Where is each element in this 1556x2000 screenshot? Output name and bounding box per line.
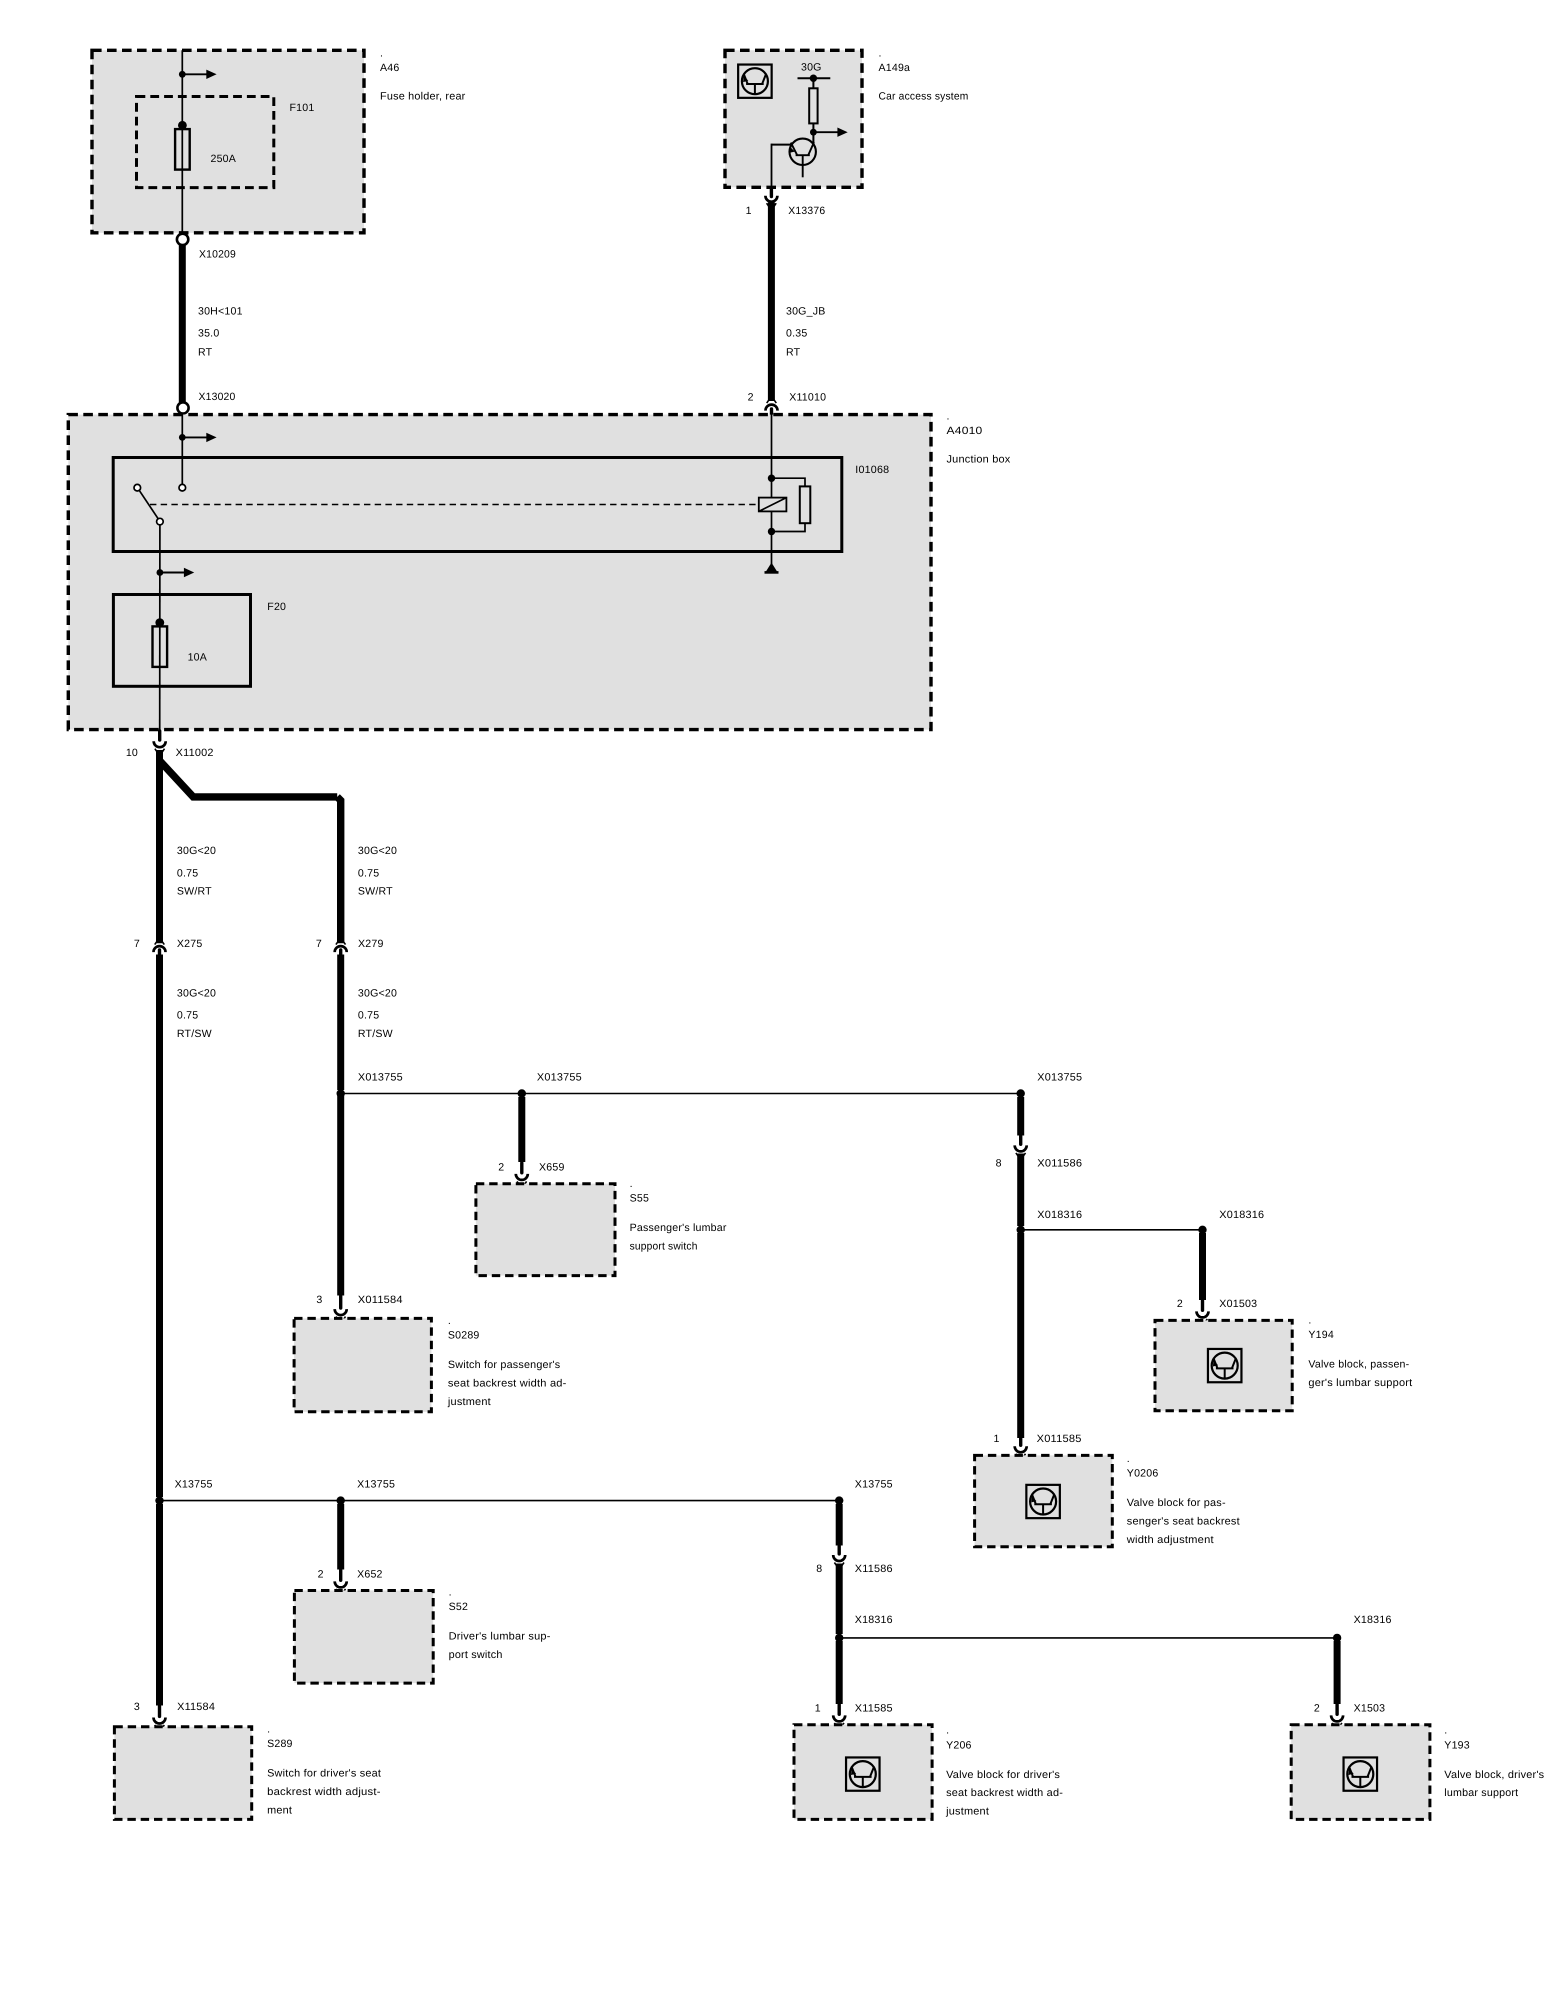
svg-text:2: 2 bbox=[498, 1162, 504, 1174]
transistor Q1 in A149a bbox=[790, 139, 816, 178]
wire 30G_JB 0.35 RT — A149a to junction box bbox=[768, 203, 775, 402]
node X13755 right bbox=[835, 1496, 843, 1504]
wire X11010 to relay bbox=[771, 415, 773, 534]
svg-text:.: . bbox=[630, 1178, 633, 1190]
svg-text:1: 1 bbox=[815, 1703, 821, 1715]
wire 30G<20 RT/SW left, X275 to X13755 bbox=[156, 955, 163, 1498]
wire F20 to X11002 bbox=[159, 626, 161, 729]
svg-text:X13755: X13755 bbox=[855, 1479, 893, 1491]
svg-text:X11586: X11586 bbox=[855, 1563, 893, 1575]
svg-text:F20: F20 bbox=[267, 601, 286, 613]
svg-text:X18316: X18316 bbox=[1354, 1614, 1392, 1626]
wire — battery feed inside A46 bbox=[181, 50, 183, 123]
svg-text:X13020: X13020 bbox=[199, 391, 236, 403]
svg-text:.: . bbox=[946, 1725, 949, 1737]
svg-text:ment: ment bbox=[267, 1804, 292, 1816]
svg-text:Y194: Y194 bbox=[1308, 1329, 1334, 1341]
switch S289 for driver's seat backrest width adjustment — dashed box bbox=[114, 1727, 251, 1820]
connector X279 pin 7 bbox=[335, 946, 347, 952]
wire X018316 to X01503 bbox=[1199, 1233, 1206, 1300]
node X13755 left bbox=[155, 1496, 163, 1504]
svg-text:X013755: X013755 bbox=[537, 1071, 582, 1083]
svg-text:3: 3 bbox=[316, 1294, 322, 1306]
switch S0289 for passenger's seat backrest width adjustment — dashed box bbox=[294, 1318, 431, 1411]
svg-text:0.35: 0.35 bbox=[786, 328, 807, 340]
relay contact blade bbox=[139, 490, 158, 519]
svg-text:X13376: X13376 bbox=[788, 205, 825, 217]
svg-text:Switch for driver's seat: Switch for driver's seat bbox=[267, 1768, 381, 1780]
junction box A4010 — dashed enclosure bbox=[68, 415, 931, 730]
svg-text:Junction box: Junction box bbox=[947, 454, 1012, 466]
connector X11586 pin 8 bbox=[838, 1546, 841, 1554]
svg-text:seat backrest width ad-: seat backrest width ad- bbox=[946, 1787, 1063, 1799]
svg-text:30G<20: 30G<20 bbox=[177, 988, 216, 1000]
fuse F101 element 250A bbox=[178, 121, 187, 130]
connector X11584 pin 3 bbox=[158, 1706, 161, 1716]
svg-text:X279: X279 bbox=[358, 938, 384, 950]
svg-text:ger's lumbar support: ger's lumbar support bbox=[1308, 1377, 1412, 1389]
wire X13755 to S52 bbox=[337, 1504, 344, 1570]
svg-text:8: 8 bbox=[996, 1158, 1002, 1170]
svg-text:X10209: X10209 bbox=[199, 248, 236, 260]
relay contact terminal (NC) bbox=[134, 484, 141, 491]
relay contact terminal (input) bbox=[179, 484, 186, 491]
svg-text:8: 8 bbox=[816, 1563, 822, 1575]
wire through F101 to X10209 bbox=[181, 129, 183, 233]
net X18316 horizontal link bbox=[839, 1637, 1337, 1639]
wire transistor base bbox=[772, 144, 792, 146]
svg-text:Y193: Y193 bbox=[1444, 1739, 1470, 1751]
svg-text:Passenger's lumbar: Passenger's lumbar bbox=[630, 1222, 727, 1234]
svg-text:I01068: I01068 bbox=[855, 464, 889, 476]
svg-text:Valve block, driver's: Valve block, driver's bbox=[1444, 1769, 1544, 1781]
connector X659 pin 2 bbox=[520, 1163, 523, 1173]
valve block Y193, driver's lumbar support — dashed box bbox=[1291, 1725, 1430, 1820]
connector X11010 pin 2 bbox=[766, 405, 778, 411]
svg-text:A4010: A4010 bbox=[947, 425, 983, 437]
feed continuation arrow in A46 bbox=[179, 71, 186, 78]
svg-text:30H<101: 30H<101 bbox=[198, 306, 243, 318]
svg-text:Y0206: Y0206 bbox=[1127, 1467, 1159, 1479]
wire X18316 right down to X1503 bbox=[1334, 1641, 1341, 1704]
wire 30G<20 RT/SW right, X279 to X013755 bbox=[337, 955, 344, 1091]
valve block Y194, passenger's lumbar support — dashed box bbox=[1155, 1320, 1292, 1410]
svg-text:2: 2 bbox=[318, 1569, 324, 1581]
valve block Y0206 for passenger's seat backrest width adjustment — dashed box bbox=[975, 1455, 1113, 1546]
svg-text:35.0: 35.0 bbox=[198, 328, 219, 340]
svg-text:.: . bbox=[380, 48, 383, 60]
net X018316 horizontal link bbox=[1021, 1229, 1203, 1231]
resistor in A149a bbox=[809, 88, 817, 123]
svg-text:Fuse holder, rear: Fuse holder, rear bbox=[380, 90, 466, 102]
wire 30G to resistor bbox=[812, 78, 814, 88]
svg-text:S55: S55 bbox=[630, 1193, 649, 1205]
wire X013755 to S55 bbox=[518, 1097, 525, 1162]
wire X013755 right down to X011586 bbox=[1017, 1097, 1024, 1136]
svg-text:10A: 10A bbox=[188, 651, 208, 663]
svg-text:S0289: S0289 bbox=[448, 1330, 480, 1342]
connector X13376 pin 1 bbox=[770, 189, 773, 197]
svg-text:seat backrest width ad-: seat backrest width ad- bbox=[448, 1378, 567, 1390]
connector X11585 pin 1 bbox=[838, 1705, 841, 1715]
svg-text:2: 2 bbox=[748, 392, 754, 404]
fuse F20 element 10A bbox=[155, 618, 164, 627]
wire X13755 left down to X11584 bbox=[156, 1504, 163, 1706]
svg-text:1: 1 bbox=[746, 205, 752, 217]
svg-text:S52: S52 bbox=[449, 1601, 468, 1613]
svg-text:X659: X659 bbox=[539, 1162, 565, 1174]
svg-text:senger's seat backrest: senger's seat backrest bbox=[1127, 1515, 1240, 1527]
node X13755 middle bbox=[337, 1496, 345, 1504]
svg-text:A149a: A149a bbox=[879, 62, 911, 74]
svg-text:backrest width adjust-: backrest width adjust- bbox=[267, 1786, 381, 1798]
svg-text:X18316: X18316 bbox=[855, 1614, 893, 1626]
wire X018316 down to X011585 bbox=[1017, 1233, 1024, 1438]
svg-text:X011584: X011584 bbox=[358, 1294, 403, 1306]
svg-text:1: 1 bbox=[994, 1433, 1000, 1445]
svg-text:X11584: X11584 bbox=[177, 1701, 215, 1713]
svg-text:S289: S289 bbox=[267, 1738, 293, 1750]
svg-text:.: . bbox=[947, 411, 950, 423]
wire X18316 down to X11585 bbox=[836, 1641, 843, 1704]
svg-text:7: 7 bbox=[316, 938, 322, 950]
svg-text:2: 2 bbox=[1177, 1298, 1183, 1310]
svg-text:X1503: X1503 bbox=[1354, 1703, 1386, 1715]
ground symbol in junction box bbox=[766, 563, 778, 572]
wire branch to second backbone bbox=[160, 761, 338, 797]
svg-text:F101: F101 bbox=[290, 102, 315, 114]
connector X13020 bbox=[177, 402, 188, 413]
svg-text:.: . bbox=[1127, 1453, 1130, 1465]
wire relay output down to fuse F20 bbox=[159, 525, 161, 625]
connector X011584 pin 3 bbox=[339, 1296, 342, 1308]
svg-text:SW/RT: SW/RT bbox=[177, 886, 212, 898]
svg-text:X018316: X018316 bbox=[1037, 1209, 1082, 1221]
svg-text:X01503: X01503 bbox=[1219, 1298, 1257, 1310]
wire base lead down to X13376 bbox=[771, 144, 773, 188]
valve block icon Y0206 bbox=[1026, 1485, 1060, 1518]
svg-text:RT: RT bbox=[198, 347, 213, 359]
wire X11586 to X18316 bbox=[836, 1564, 843, 1635]
svg-text:.: . bbox=[267, 1723, 270, 1735]
node X18316 right bbox=[1333, 1634, 1341, 1642]
svg-text:Valve block for pas-: Valve block for pas- bbox=[1127, 1497, 1226, 1509]
svg-text:X011586: X011586 bbox=[1037, 1158, 1082, 1170]
svg-text:width adjustment: width adjustment bbox=[1126, 1534, 1214, 1546]
passenger's lumbar support switch S55 — dashed box bbox=[476, 1184, 615, 1276]
wire X13020 into junction box bbox=[181, 414, 183, 485]
svg-text:X652: X652 bbox=[357, 1569, 383, 1581]
fuse F20 box bbox=[113, 595, 250, 687]
node 30G bus stub bbox=[798, 77, 831, 79]
svg-text:X018316: X018316 bbox=[1219, 1209, 1264, 1221]
wire 30G<20 left backbone (SW/RT) bbox=[156, 750, 163, 943]
control unit icon in A149a bbox=[738, 65, 772, 98]
node X018316 right bbox=[1198, 1226, 1206, 1234]
connector X011585 pin 1 bbox=[1019, 1439, 1022, 1446]
wire X011586 to X018316 bbox=[1017, 1154, 1024, 1227]
svg-text:Y206: Y206 bbox=[946, 1739, 972, 1751]
svg-text:port switch: port switch bbox=[449, 1649, 503, 1661]
svg-text:X013755: X013755 bbox=[358, 1071, 403, 1083]
fuse holder A46, rear — dashed enclosure bbox=[92, 50, 364, 233]
valve block icon Y194 bbox=[1208, 1349, 1242, 1382]
node — relay coil bottom junction bbox=[768, 528, 775, 535]
node X18316 left bbox=[835, 1634, 843, 1642]
feed continuation arrow in A4010 bbox=[179, 434, 186, 441]
feed continuation arrow above F20 bbox=[157, 569, 164, 576]
wire coil to ground bbox=[771, 533, 773, 564]
relay contact output terminal bbox=[157, 518, 164, 525]
svg-text:0.75: 0.75 bbox=[358, 868, 379, 880]
node X013755 left bbox=[337, 1089, 345, 1097]
svg-text:250A: 250A bbox=[211, 153, 237, 165]
electronics module I01068 box bbox=[113, 458, 842, 552]
svg-text:.: . bbox=[448, 1315, 451, 1327]
relay coil K1 bbox=[759, 498, 787, 512]
connector X10209 bbox=[177, 234, 188, 245]
node — relay coil top junction bbox=[768, 475, 775, 482]
svg-text:30G_JB: 30G_JB bbox=[786, 306, 825, 318]
svg-text:X13755: X13755 bbox=[357, 1479, 395, 1491]
wire X279 backbone through X013755 down to X011584 bbox=[337, 1094, 344, 1296]
svg-text:30G<20: 30G<20 bbox=[358, 845, 397, 857]
valve block Y206 for driver's seat backrest width adjustment — dashed box bbox=[794, 1725, 932, 1820]
node X013755 middle bbox=[518, 1089, 526, 1097]
svg-text:X11002: X11002 bbox=[176, 747, 214, 759]
svg-text:A46: A46 bbox=[380, 62, 399, 74]
connector X011586 pin 8 bbox=[1019, 1136, 1022, 1144]
wire 30H<101 35.0 RT — A46 to junction box bbox=[179, 245, 186, 402]
svg-text:3: 3 bbox=[134, 1701, 140, 1713]
svg-text:30G: 30G bbox=[801, 62, 822, 74]
net X013755 horizontal link bbox=[341, 1093, 1021, 1095]
svg-text:RT/SW: RT/SW bbox=[358, 1028, 393, 1040]
svg-text:X11010: X11010 bbox=[789, 392, 826, 404]
svg-text:support switch: support switch bbox=[630, 1240, 698, 1252]
svg-text:X11585: X11585 bbox=[855, 1703, 893, 1715]
svg-text:Car access system: Car access system bbox=[879, 90, 969, 102]
connector X11002 pin 10 bbox=[158, 731, 161, 740]
relay actuation dashed link bbox=[150, 504, 759, 506]
node X018316 left bbox=[1017, 1226, 1025, 1234]
node X013755 right bbox=[1017, 1089, 1025, 1097]
node with continuation arrow in A149a bbox=[810, 129, 817, 136]
net X13755 horizontal link bbox=[160, 1500, 840, 1502]
fuse F101 box bbox=[137, 97, 274, 188]
svg-text:Valve block, passen-: Valve block, passen- bbox=[1308, 1359, 1409, 1371]
svg-text:.: . bbox=[1308, 1315, 1311, 1327]
svg-text:justment: justment bbox=[447, 1396, 491, 1408]
svg-text:.: . bbox=[449, 1586, 452, 1598]
relay coil resistor bbox=[800, 486, 811, 523]
svg-text:0.75: 0.75 bbox=[177, 868, 198, 880]
svg-text:Switch for passenger's: Switch for passenger's bbox=[448, 1359, 561, 1371]
connector X652 pin 2 bbox=[339, 1570, 342, 1580]
svg-text:2: 2 bbox=[1314, 1703, 1320, 1715]
svg-text:10: 10 bbox=[126, 747, 138, 759]
svg-text:X275: X275 bbox=[177, 938, 203, 950]
svg-text:30G<20: 30G<20 bbox=[358, 988, 397, 1000]
valve block icon Y206 bbox=[846, 1757, 880, 1790]
svg-text:7: 7 bbox=[134, 938, 140, 950]
svg-text:.: . bbox=[1444, 1725, 1447, 1737]
svg-text:Driver's lumbar sup-: Driver's lumbar sup- bbox=[449, 1631, 551, 1643]
svg-text:X13755: X13755 bbox=[175, 1479, 213, 1491]
svg-text:X013755: X013755 bbox=[1037, 1071, 1082, 1083]
car access system A149a — dashed enclosure bbox=[725, 50, 862, 187]
svg-text:X011585: X011585 bbox=[1037, 1433, 1082, 1445]
svg-text:.: . bbox=[879, 48, 882, 60]
svg-text:RT/SW: RT/SW bbox=[177, 1028, 212, 1040]
connector X275 pin 7 bbox=[154, 946, 166, 952]
svg-text:30G<20: 30G<20 bbox=[177, 845, 216, 857]
svg-text:SW/RT: SW/RT bbox=[358, 886, 393, 898]
svg-text:lumbar support: lumbar support bbox=[1444, 1787, 1518, 1799]
connector X01503 pin 2 bbox=[1201, 1301, 1204, 1311]
wire resistor to coil bottom junction bbox=[772, 523, 806, 532]
svg-text:Valve block for driver's: Valve block for driver's bbox=[946, 1769, 1060, 1781]
connector X1503 pin 2 bbox=[1335, 1705, 1338, 1715]
wire to coil suppression resistor bbox=[772, 478, 806, 487]
svg-text:RT: RT bbox=[786, 347, 801, 359]
svg-text:0.75: 0.75 bbox=[177, 1010, 198, 1022]
wire resistor to transistor collector bbox=[812, 123, 814, 142]
driver's lumbar support switch S52 — dashed box bbox=[294, 1591, 433, 1684]
svg-text:0.75: 0.75 bbox=[358, 1010, 379, 1022]
svg-text:justment: justment bbox=[945, 1806, 989, 1818]
wire X13755 right down to X11586 bbox=[836, 1504, 843, 1546]
valve block icon Y193 bbox=[1344, 1757, 1378, 1790]
